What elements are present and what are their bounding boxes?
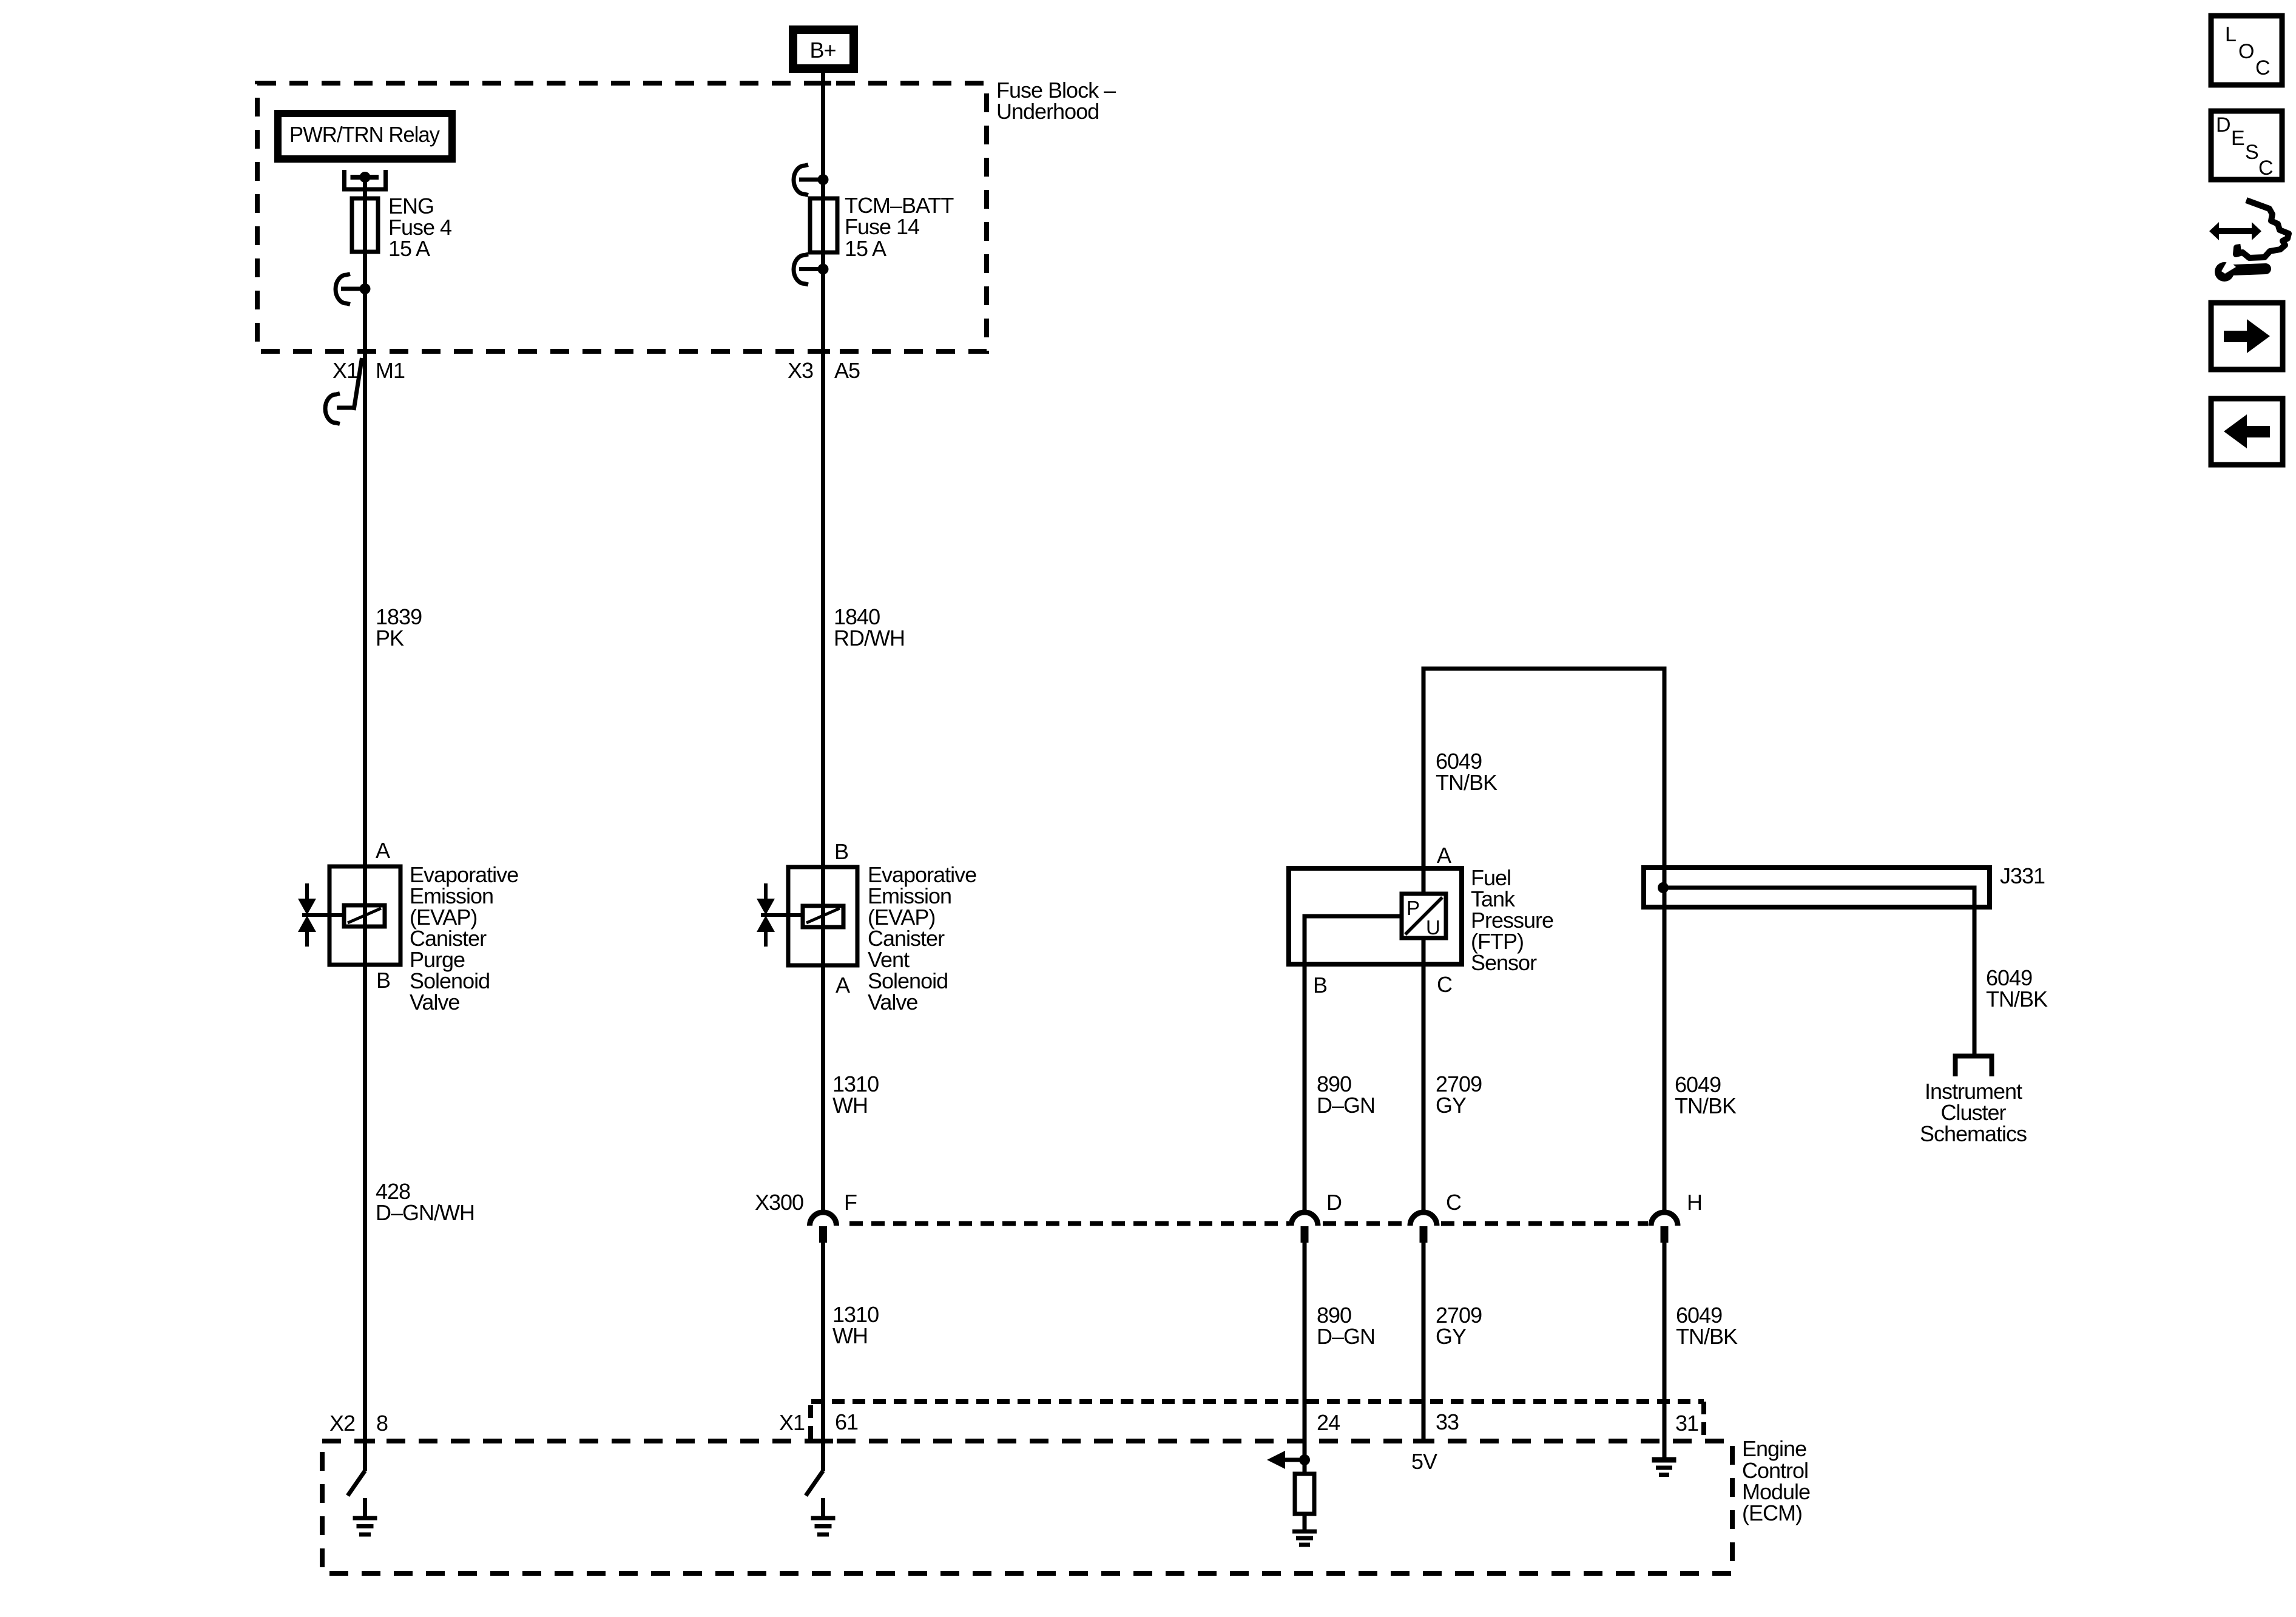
- X300 pin H male terminal: [1661, 1226, 1669, 1243]
- wire: X300 pin C up to ECM pin 33: [1422, 1243, 1426, 1441]
- dash crossing wire at X3 A5 on fuse block bottom edge: [810, 349, 830, 354]
- purge valve arrow down: [298, 899, 316, 915]
- connector X1 M1 terminal bar: [337, 406, 356, 410]
- purge solenoid coil diagonal: [348, 908, 381, 923]
- svg-text:15 A: 15 A: [845, 236, 886, 261]
- vehicle description icon wrench: [2215, 260, 2266, 282]
- vent solenoid coil: [803, 906, 843, 927]
- svg-text:Fuse 14: Fuse 14: [845, 214, 919, 239]
- purge valve arrow up: [298, 916, 316, 932]
- svg-text:TN/BK: TN/BK: [1986, 987, 2048, 1011]
- X300 inline connector dashed line segment F to D: [849, 1221, 1289, 1226]
- LOC icon box: [2211, 16, 2282, 85]
- fuse TCM-BATT top clip hook: [794, 165, 808, 195]
- purge solenoid coil lead tick: [302, 913, 344, 917]
- svg-text:TN/BK: TN/BK: [1676, 1324, 1738, 1349]
- svg-text:B: B: [834, 839, 848, 864]
- connector X1 M1 inline terminal slash: [354, 358, 362, 410]
- X300 connector arc pin C: [1410, 1212, 1437, 1226]
- junction dot at J331 splice: [1658, 882, 1669, 893]
- svg-text:F: F: [844, 1190, 857, 1215]
- ECM internal resistor: [1295, 1474, 1314, 1514]
- svg-text:PWR/TRN Relay: PWR/TRN Relay: [289, 122, 440, 147]
- fuse TCM-BATT bottom clip hook: [794, 254, 808, 285]
- relay terminal junction dot: [360, 172, 371, 183]
- svg-text:B: B: [376, 968, 390, 993]
- vent solenoid coil diagonal: [806, 908, 840, 923]
- svg-text:D–GN/WH: D–GN/WH: [376, 1200, 474, 1225]
- wire: PWR/TRN relay output down through EVAP purge solenoid to ECM pin 8 switch: [363, 177, 367, 1471]
- vent valve arrow up: [757, 916, 775, 932]
- svg-text:GY: GY: [1436, 1324, 1467, 1349]
- X300 pin D male terminal: [1301, 1226, 1309, 1243]
- svg-text:P: P: [1406, 897, 1419, 919]
- ground symbol at ECM pin 31: [1652, 1460, 1676, 1475]
- wire: J331 splice to instrument cluster schematics: [1663, 888, 1974, 1054]
- dash crossing wire at ECM pin 61 entry: [812, 1439, 833, 1443]
- EVAP canister purge solenoid valve box: [329, 866, 400, 965]
- svg-text:A5: A5: [834, 358, 860, 383]
- ground symbol below ECM resistor: [1292, 1531, 1317, 1545]
- svg-text:U: U: [1426, 916, 1440, 939]
- svg-text:TN/BK: TN/BK: [1675, 1093, 1737, 1118]
- svg-text:Sensor: Sensor: [1471, 950, 1537, 975]
- svg-text:C: C: [2258, 157, 2273, 180]
- off page connector staple to instrument cluster: [1956, 1056, 1992, 1077]
- svg-text:X1: X1: [779, 1410, 805, 1435]
- ECM X1 connector fine dashed line: [811, 1399, 1704, 1404]
- fuse TCM-BATT bottom clip bar: [799, 267, 823, 271]
- svg-text:M1: M1: [376, 358, 405, 383]
- svg-text:RD/WH: RD/WH: [834, 626, 905, 650]
- sidebar icons: [2211, 16, 2283, 465]
- forward arrow icon box: [2211, 303, 2283, 370]
- junction dot below TCM-BATT fuse: [818, 264, 829, 275]
- svg-text:61: 61: [835, 1409, 858, 1434]
- svg-text:Valve: Valve: [410, 990, 459, 1014]
- FTP sensor P/U diagonal: [1405, 897, 1442, 934]
- svg-text:TN/BK: TN/BK: [1436, 770, 1497, 795]
- svg-text:Schematics: Schematics: [1920, 1121, 2027, 1146]
- ground symbol at ECM pin 8: [353, 1518, 377, 1534]
- X300 dashed line segment C to H: [1441, 1221, 1648, 1226]
- svg-text:L: L: [2225, 23, 2236, 46]
- ECM X1 connector fine dash right stub: [1701, 1402, 1706, 1439]
- svg-text:8: 8: [376, 1411, 388, 1436]
- X300 connector arc pin F: [810, 1212, 837, 1226]
- J331 splice pack bus bar: [1644, 868, 1990, 907]
- svg-text:15 A: 15 A: [388, 236, 430, 261]
- vent valve arrow down: [757, 899, 775, 915]
- X300 pin F male terminal: [819, 1226, 827, 1243]
- back arrow icon box: [2211, 399, 2283, 465]
- connector X1 M1 terminal hook: [325, 394, 340, 424]
- junction dot at ECM pin 24 node: [1299, 1454, 1310, 1465]
- wire: X300 pin D down to ECM pin 24 and resistor: [1303, 1243, 1307, 1474]
- svg-text:WH: WH: [832, 1093, 868, 1118]
- EVAP canister vent solenoid valve box: [788, 867, 857, 965]
- ECM pin 61 ground stub: [821, 1498, 825, 1516]
- ECM X1 connector fine dash stub between X1 and 61: [808, 1405, 813, 1439]
- wire: X300 pin F down to ECM pin 61 switch: [821, 1243, 825, 1471]
- svg-text:J331: J331: [2000, 863, 2045, 888]
- svg-text:H: H: [1687, 1190, 1702, 1215]
- svg-text:B+: B+: [809, 38, 836, 62]
- wire: FTP sensor pin C down to X300 pin C: [1422, 938, 1426, 1210]
- fuse ENG bottom clip hook: [336, 274, 350, 305]
- fuse ENG bottom clip bar: [341, 287, 365, 291]
- svg-text:Engine: Engine: [1742, 1436, 1806, 1461]
- relay terminal T-bar: [351, 175, 379, 180]
- svg-text:S: S: [2245, 141, 2258, 164]
- junction dot above TCM-BATT fuse: [818, 174, 829, 185]
- svg-text:Underhood: Underhood: [996, 99, 1099, 124]
- fuse ENG Fuse 4 body: [352, 198, 378, 252]
- ECM pin 24 pull-up arrow shaft: [1281, 1458, 1302, 1462]
- resistor to ground stub: [1303, 1514, 1307, 1530]
- svg-text:C: C: [2255, 56, 2270, 79]
- dash crossing wire at ECM pin 8 entry: [354, 1439, 375, 1443]
- forward arrow icon glyph: [2224, 319, 2270, 353]
- svg-text:GY: GY: [1436, 1093, 1467, 1118]
- svg-text:A: A: [1437, 843, 1451, 868]
- svg-text:33: 33: [1436, 1409, 1459, 1434]
- ECM dashed box: [322, 1441, 1732, 1573]
- vent valve symbol stem top: [764, 883, 768, 899]
- svg-text:C: C: [1446, 1190, 1461, 1215]
- ECM pin 61 internal switch: [806, 1471, 823, 1496]
- wire: B+ down through EVAP vent solenoid to X300 pin F: [821, 73, 825, 1210]
- vent solenoid coil lead tick: [761, 913, 803, 917]
- dash crossing B+ wire on fuse block top edge: [810, 81, 831, 86]
- ground symbol at ECM pin 61: [811, 1518, 836, 1534]
- svg-text:O: O: [2238, 40, 2254, 63]
- svg-text:Valve: Valve: [868, 990, 917, 1014]
- svg-text:D–GN: D–GN: [1317, 1093, 1375, 1118]
- svg-text:B: B: [1313, 973, 1327, 998]
- X300 pin C male terminal: [1420, 1226, 1428, 1243]
- FTP sensor P/U transducer square: [1402, 894, 1446, 938]
- back arrow icon glyph: [2224, 414, 2270, 448]
- wire: FTP sensor pin B leftward and down to X300 pin D: [1305, 916, 1402, 1210]
- svg-text:D: D: [1326, 1190, 1342, 1215]
- dash at ECM pin 33 wire termination: [1413, 1439, 1434, 1443]
- ECM pin 8 ground stub: [363, 1498, 367, 1516]
- ECM pin 8 internal switch: [348, 1471, 365, 1496]
- svg-text:X1: X1: [333, 358, 358, 383]
- junction dot below ENG fuse: [360, 283, 371, 294]
- X300 connector arc pin H: [1651, 1212, 1678, 1226]
- svg-text:A: A: [836, 973, 850, 998]
- svg-text:24: 24: [1317, 1410, 1340, 1435]
- svg-text:5V: 5V: [1411, 1449, 1437, 1474]
- svg-text:X300: X300: [755, 1190, 803, 1215]
- svg-text:D–GN: D–GN: [1317, 1324, 1375, 1349]
- svg-text:D: D: [2216, 113, 2230, 137]
- svg-text:A: A: [376, 838, 390, 863]
- svg-text:X2: X2: [329, 1411, 355, 1436]
- wire: X300 pin H down to ECM pin 31 ground: [1663, 1243, 1667, 1457]
- vent valve symbol stem bottom: [764, 931, 768, 947]
- fuse TCM-BATT Fuse 14 body: [810, 198, 837, 252]
- vehicle description icon double arrow: [2209, 222, 2261, 240]
- DESC icon box: [2211, 111, 2282, 180]
- svg-text:PK: PK: [376, 626, 404, 650]
- ECM pin 24 arrow head: [1267, 1451, 1285, 1469]
- svg-text:31: 31: [1675, 1411, 1698, 1436]
- wire: top link from FTP sensor A to J331 branch: [1423, 669, 1664, 1210]
- fuel tank pressure FTP sensor box: [1289, 868, 1462, 964]
- fuse block underhood dashed box: [257, 83, 987, 351]
- svg-text:(ECM): (ECM): [1742, 1501, 1802, 1525]
- B+ terminal box: [793, 30, 854, 69]
- X300 dashed line segment D to C: [1323, 1221, 1408, 1226]
- purge solenoid coil: [344, 905, 385, 927]
- relay output terminal cup: [345, 170, 386, 189]
- purge valve symbol stem top: [305, 883, 309, 899]
- svg-text:C: C: [1437, 972, 1452, 997]
- vehicle description icon outline: [2236, 200, 2289, 258]
- PWR/TRN Relay box: [278, 113, 452, 159]
- svg-text:WH: WH: [832, 1323, 868, 1348]
- purge valve symbol stem bottom: [305, 931, 309, 947]
- svg-text:X3: X3: [788, 358, 813, 383]
- X300 connector arc pin D: [1291, 1212, 1318, 1226]
- svg-text:E: E: [2231, 127, 2244, 150]
- fuse TCM-BATT top clip bar: [799, 178, 823, 182]
